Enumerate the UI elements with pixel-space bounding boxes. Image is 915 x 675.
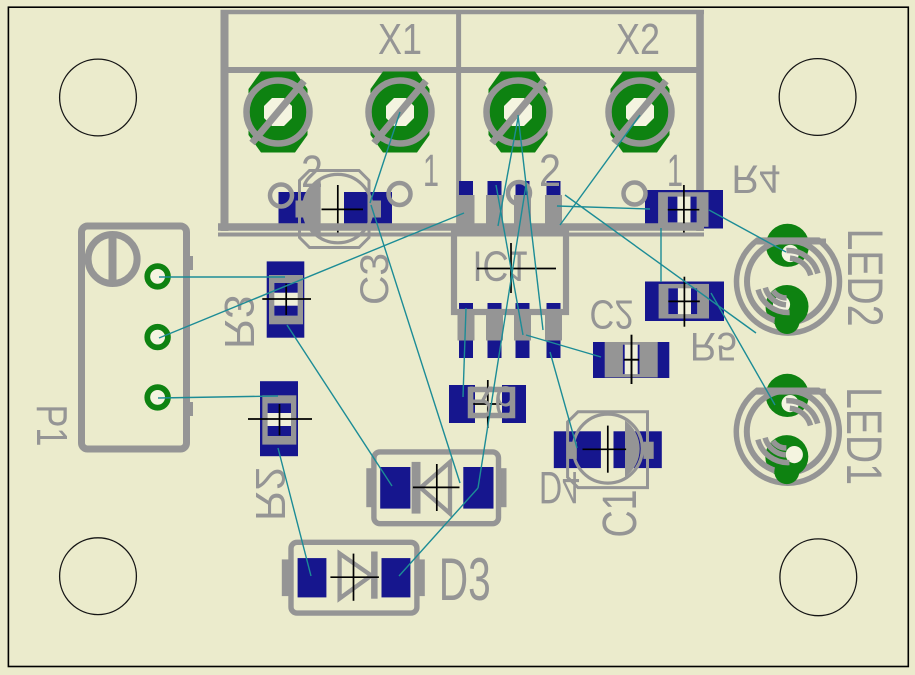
airwire X2.2-IC1b	[498, 118, 518, 226]
airwires	[158, 112, 786, 576]
connector P1 outline	[82, 226, 194, 449]
IC IC1 SOIC-8 pins bottom	[458, 303, 563, 358]
diode D3	[282, 542, 425, 613]
svg-text:IC1: IC1	[473, 242, 529, 290]
airwire IC1-LED2	[565, 195, 756, 333]
P1 pad 1	[147, 266, 168, 287]
X2 pad 2	[487, 72, 550, 153]
IC U1/IC1 SOIC-8 pins top	[458, 181, 563, 231]
svg-text:P1: P1	[27, 405, 76, 447]
capacitor C3 (under connector bars)	[279, 171, 393, 248]
diode D4	[366, 452, 506, 524]
svg-text:R5: R5	[690, 324, 737, 368]
svg-text:X1: X1	[378, 15, 422, 64]
X1 pin2 ring	[270, 185, 292, 207]
X1 pin1 ring	[389, 183, 411, 205]
airwire P1.2-IC1	[159, 213, 464, 338]
P1 pad 2	[147, 327, 168, 348]
mounting hole bottom-right	[780, 539, 857, 616]
airwire X1.2-C3	[370, 112, 400, 203]
X1 pad 2	[247, 72, 310, 153]
airwire P1.3-R2	[158, 396, 278, 398]
LED1	[736, 374, 839, 484]
P1 screw circle	[88, 235, 137, 284]
airwire IC1-D4	[478, 185, 526, 488]
svg-text:D4: D4	[539, 462, 580, 513]
svg-text:R2: R2	[247, 467, 294, 521]
IC1 origin cross	[477, 243, 556, 293]
LED2	[737, 224, 840, 334]
mounting hole bottom-left	[60, 538, 137, 615]
svg-text:R3: R3	[216, 295, 263, 349]
airwire R3-D4	[287, 325, 392, 486]
airwire R5-LED1	[711, 293, 775, 405]
airwire R4-R5	[660, 228, 662, 282]
svg-text:1: 1	[667, 145, 683, 196]
connector front edge bars (over C3/IC pins/R4)	[218, 227, 704, 235]
airwire P1.1-R3	[159, 276, 285, 278]
X1 pad 1	[369, 72, 432, 153]
resistor R6	[449, 380, 526, 428]
airwire R4-LED2	[709, 210, 786, 252]
airwire IC1 crossing	[496, 185, 523, 335]
resistor R2	[248, 381, 312, 456]
X2 pin2 ring	[508, 182, 530, 204]
svg-text:C3: C3	[353, 253, 397, 305]
svg-text:C2: C2	[590, 292, 634, 338]
capacitor C2	[593, 335, 669, 384]
X2 pin1 ring	[624, 183, 646, 205]
airwire X2.2-IC1	[518, 115, 543, 330]
svg-text:R4: R4	[732, 157, 781, 201]
svg-text:D3: D3	[439, 546, 491, 613]
mounting hole top-right	[779, 59, 856, 136]
airwire IC1-C1	[550, 352, 577, 448]
P1 pad 3	[147, 387, 168, 408]
svg-text:X2: X2	[616, 15, 660, 64]
connector X1 outline	[221, 10, 705, 231]
airwire R2-D3	[278, 448, 311, 576]
svg-text:LED2: LED2	[837, 229, 893, 327]
airwire X2.1-IC1	[560, 115, 640, 225]
airwire IC1-R4	[557, 206, 650, 209]
mounting hole top-left	[60, 59, 137, 136]
airwire IC1-C2	[526, 335, 601, 357]
svg-text:C1: C1	[594, 490, 647, 538]
svg-text:2: 2	[301, 146, 323, 197]
svg-text:2: 2	[539, 145, 561, 196]
X2 pad 1	[609, 72, 672, 153]
airwire IC1-R6	[463, 308, 466, 397]
capacitor C1	[554, 412, 662, 488]
resistor R4	[645, 185, 723, 235]
svg-text:1: 1	[423, 145, 439, 196]
resistor R3	[262, 261, 311, 337]
resistor R5	[645, 277, 724, 327]
IC IC1 body	[454, 233, 566, 312]
airwire C3-D4	[371, 205, 460, 483]
svg-text:LED1: LED1	[836, 387, 892, 485]
airwire D4-D3	[399, 488, 478, 576]
connector X2 outline	[459, 10, 700, 231]
